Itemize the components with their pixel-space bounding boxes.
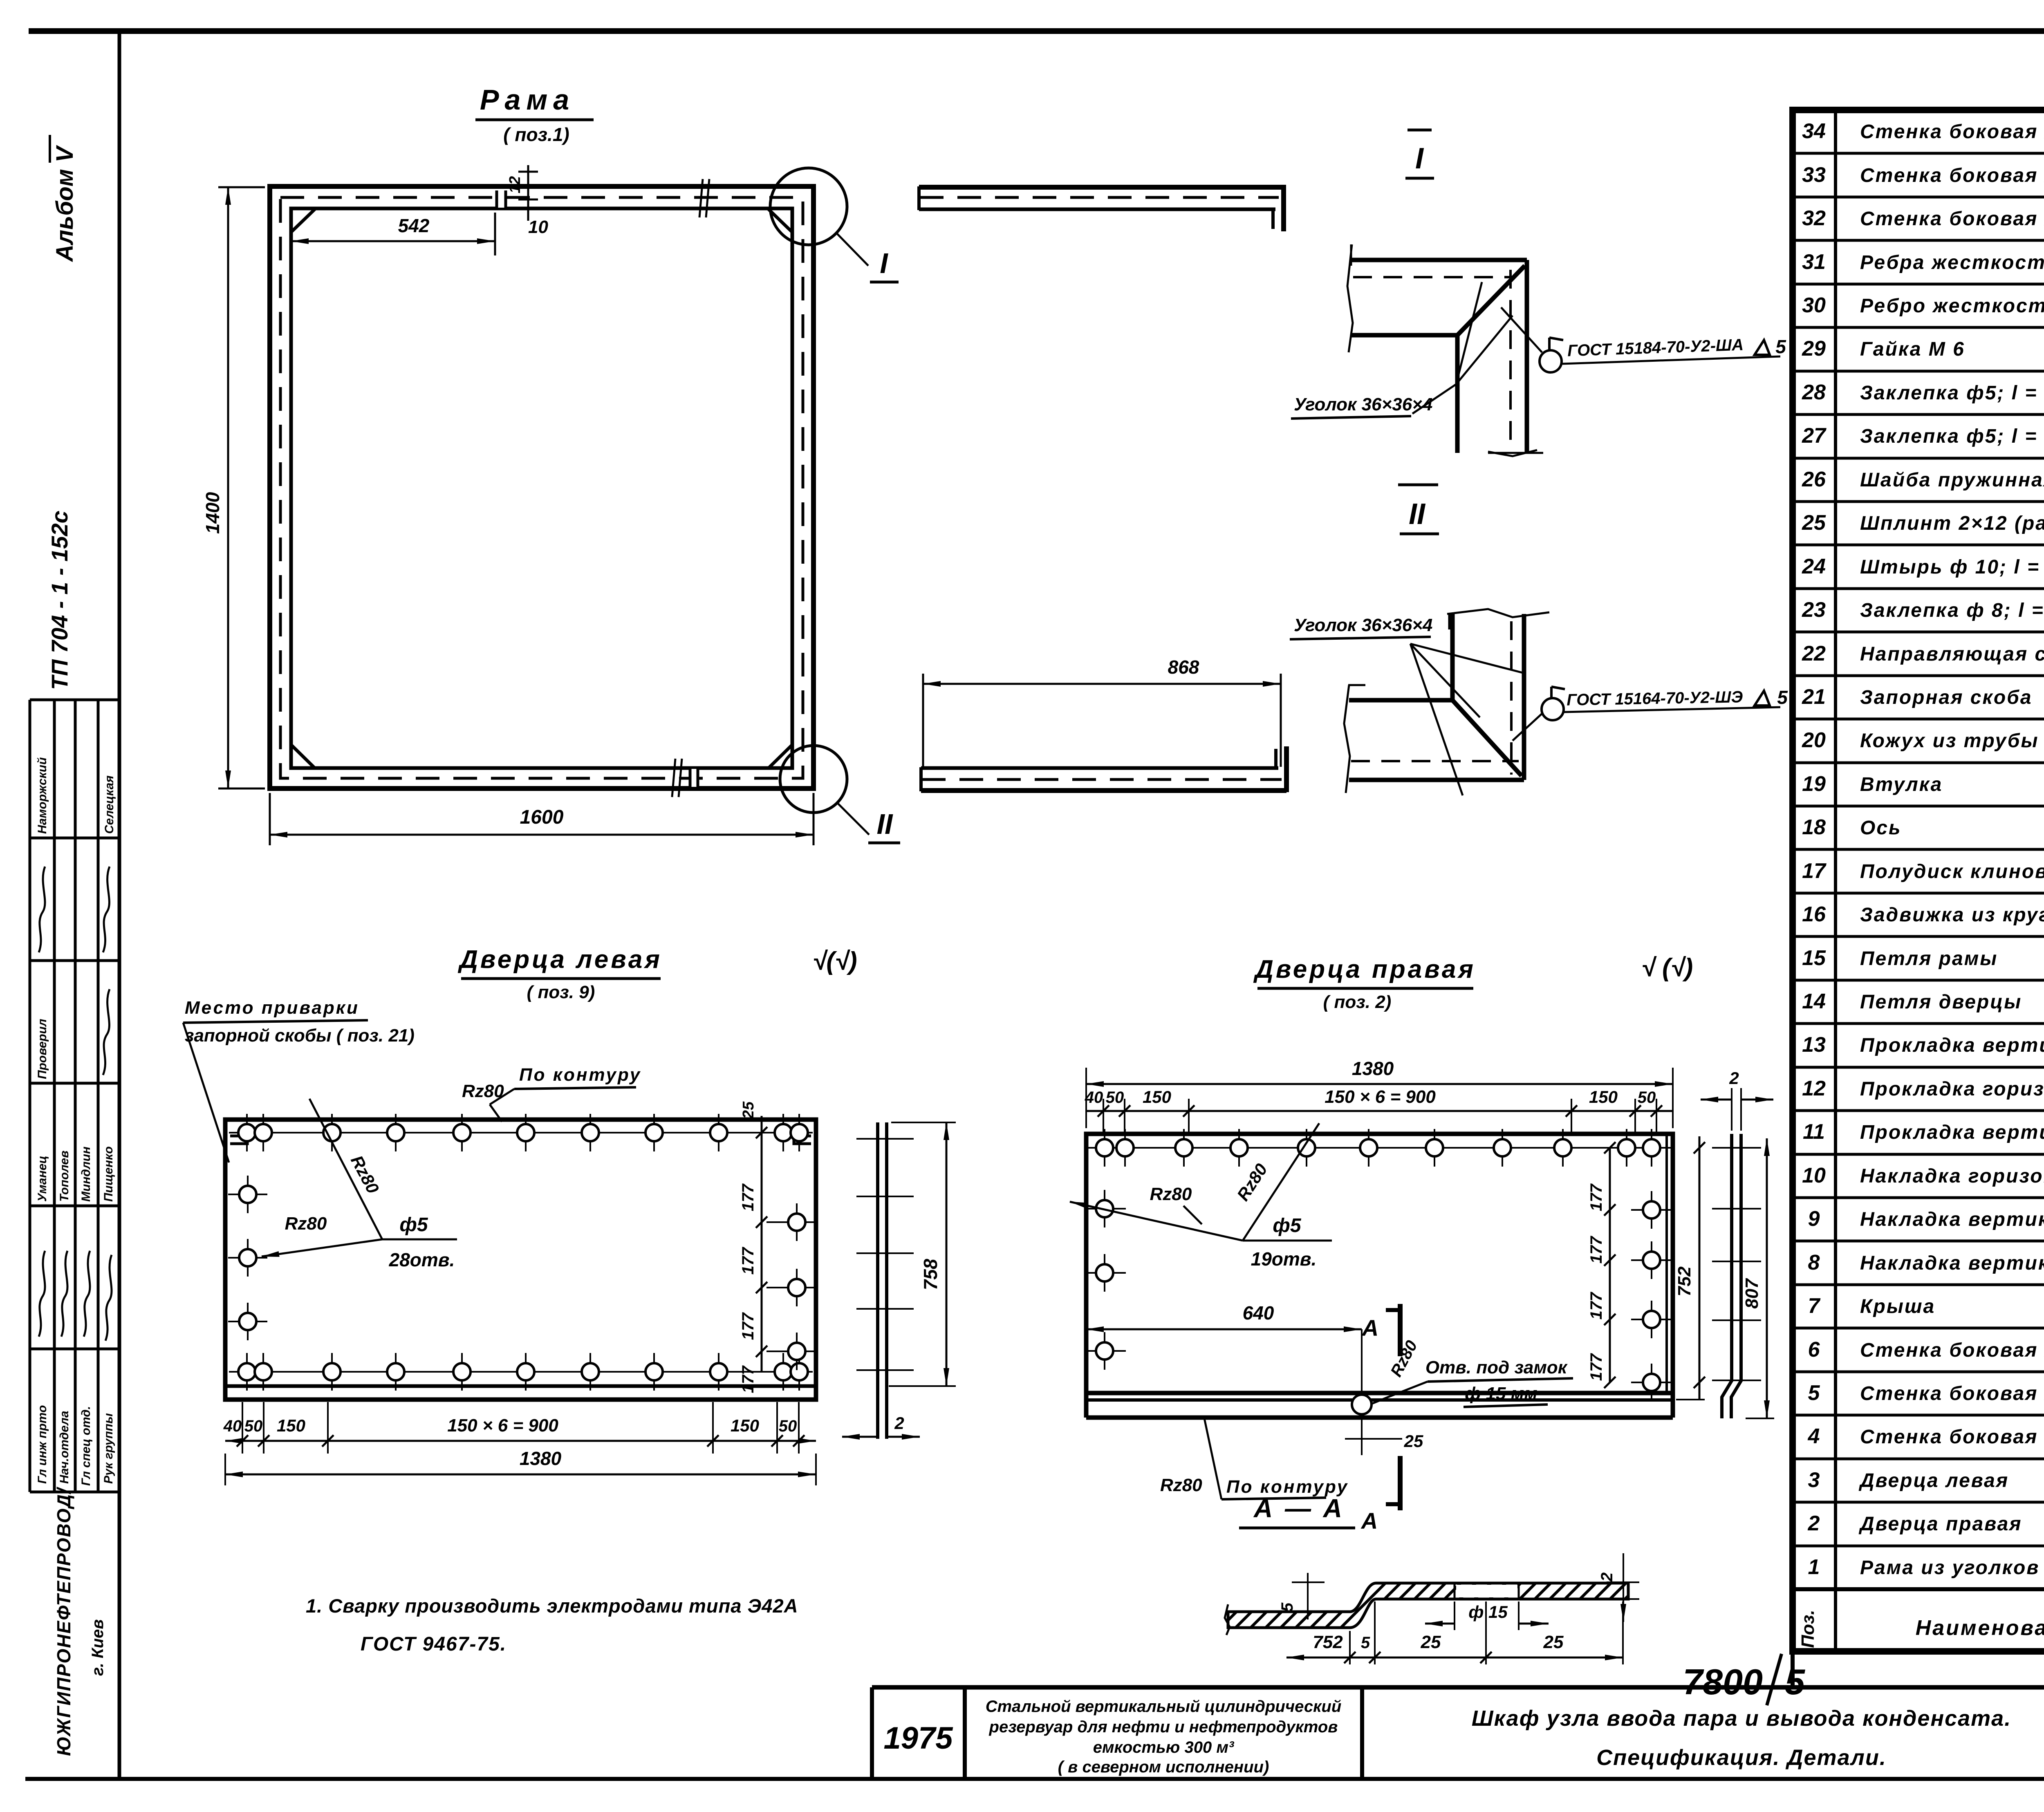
svg-text:177: 177: [739, 1183, 757, 1211]
svg-text:Нач.отдела: Нач.отдела: [58, 1411, 71, 1484]
frame corner chamfers: [291, 209, 315, 232]
left door plate: [225, 1120, 816, 1400]
left door weld notch right: [794, 1136, 811, 1144]
svg-text:5: 5: [1361, 1634, 1370, 1652]
svg-text:1380: 1380: [520, 1448, 562, 1469]
svg-text:Стенка боковая левая: Стенка боковая левая: [1860, 121, 2044, 143]
svg-text:Дверца правая: Дверца правая: [1858, 1513, 2022, 1535]
left door side view: [876, 1122, 879, 1439]
svg-text:Стенка боковая правая: Стенка боковая правая: [1860, 1426, 2044, 1448]
detail I weld leader: [1501, 307, 1542, 352]
left door holes note: [309, 1099, 382, 1239]
svg-text:868: 868: [1168, 656, 1199, 678]
section cut mark A lower: [1398, 1456, 1403, 1510]
svg-text:31: 31: [1802, 250, 1826, 274]
svg-text:Рама из уголков 36×36×4: Рама из уголков 36×36×4: [1860, 1557, 2044, 1579]
svg-text:Шплинт 2×12 (разводной): Шплинт 2×12 (разводной): [1860, 513, 2044, 534]
dimension 12: [527, 165, 529, 221]
svg-text:21: 21: [1802, 685, 1826, 709]
left door thickness dimension 2: [842, 1436, 878, 1438]
svg-text:ГОСТ 9467-75.: ГОСТ 9467-75.: [361, 1633, 507, 1655]
detail II leader lines: [1410, 644, 1526, 674]
svg-text:12: 12: [507, 176, 524, 193]
svg-text:50: 50: [244, 1417, 263, 1435]
right door 752 dimension: [1699, 1136, 1701, 1400]
svg-text:150: 150: [1589, 1087, 1618, 1106]
svg-text:542: 542: [398, 215, 430, 236]
svg-text:5: 5: [1777, 687, 1788, 708]
svg-text:50: 50: [1638, 1089, 1656, 1106]
right door 177 dimension chain: [1609, 1148, 1611, 1382]
svg-text:А: А: [1361, 1315, 1378, 1341]
specification banner: [1791, 1651, 1795, 1687]
svg-text:2: 2: [1808, 1512, 1820, 1535]
svg-text:14: 14: [1802, 990, 1826, 1013]
right door lock hole: [1361, 1386, 1363, 1423]
svg-text:19отв.: 19отв.: [1251, 1248, 1317, 1270]
svg-text:1400: 1400: [202, 492, 223, 534]
detail I angle corner: [1351, 258, 1527, 262]
svg-text:25: 25: [1802, 511, 1826, 535]
partial frame top rail: [919, 185, 1284, 190]
svg-text:Заклепка ф5; l = 20 мм: Заклепка ф5; l = 20 мм: [1860, 382, 2044, 404]
dimension 1400: [218, 186, 265, 188]
svg-text:Накладка вертикальная: Накладка вертикальная: [1860, 1209, 2044, 1230]
svg-text:2: 2: [894, 1413, 904, 1433]
right door right column holes: [1631, 1209, 1673, 1211]
svg-text:22: 22: [1802, 642, 1826, 665]
svg-text:( поз. 9): ( поз. 9): [527, 982, 595, 1002]
svg-text:Кожух из трубы: Кожух из трубы: [1860, 730, 2039, 752]
right door top dimension chain: [1086, 1110, 1673, 1112]
section thickness 2 right: [1623, 1553, 1624, 1622]
svg-text:Альбом V: Альбом V: [52, 145, 78, 262]
svg-text:Прокладка вертикальная: Прокладка вертикальная: [1860, 1035, 2044, 1056]
dimension 1600: [269, 793, 271, 845]
svg-text:Дверца левая: Дверца левая: [1858, 1470, 2009, 1492]
left door 758 dimension: [891, 1122, 956, 1123]
svg-text:1975: 1975: [883, 1721, 953, 1756]
svg-text:150: 150: [731, 1416, 759, 1435]
svg-text:√(√): √(√): [812, 947, 857, 975]
svg-text:2: 2: [1729, 1068, 1739, 1088]
svg-text:50: 50: [1106, 1089, 1124, 1106]
svg-text:2: 2: [1598, 1572, 1616, 1582]
svg-text:18: 18: [1802, 815, 1826, 839]
signature table: [30, 699, 119, 701]
svg-text:1380: 1380: [1352, 1058, 1394, 1079]
svg-text:Наморжский: Наморжский: [36, 757, 49, 834]
svg-text:ТП 704 - 1 - 152с: ТП 704 - 1 - 152с: [47, 511, 72, 690]
svg-text:Петля дверцы: Петля дверцы: [1860, 991, 2022, 1013]
svg-text:25: 25: [740, 1101, 757, 1119]
right door 807 dimension: [1766, 1138, 1768, 1418]
left door bottom dimension chain: [242, 1402, 243, 1454]
svg-text:23: 23: [1802, 598, 1826, 622]
svg-text:8: 8: [1808, 1251, 1820, 1274]
svg-text:16: 16: [1802, 903, 1826, 926]
svg-text:Прокладка горизонтальная: Прокладка горизонтальная: [1860, 1078, 2044, 1100]
svg-text:7800: 7800: [1683, 1662, 1763, 1702]
svg-text:ф 15 мм: ф 15 мм: [1465, 1384, 1537, 1404]
frame bottom rail notch: [690, 769, 698, 787]
svg-text:Стальной вертикальный цилиндри: Стальной вертикальный цилиндрический: [986, 1698, 1342, 1716]
left door weld notch left: [230, 1136, 247, 1144]
svg-text:Ось: Ось: [1860, 817, 1902, 839]
svg-text:807: 807: [1742, 1278, 1762, 1309]
detail II weld leader: [1513, 713, 1543, 741]
svg-text:емкостью 300 м³: емкостью 300 м³: [1093, 1738, 1235, 1756]
svg-text:25: 25: [1421, 1632, 1441, 1652]
svg-text:Шкаф узла ввода пара и вывод: Шкаф узла ввода пара и вывода конденсата…: [1472, 1706, 2011, 1731]
svg-text:24: 24: [1802, 555, 1826, 578]
partial frame bottom rail: [921, 788, 1286, 793]
svg-text:ф5: ф5: [1273, 1215, 1301, 1236]
svg-text:752: 752: [1674, 1266, 1694, 1297]
svg-text:19: 19: [1802, 772, 1826, 796]
detail I weld designation: [1562, 356, 1780, 364]
svg-text:II: II: [877, 808, 893, 840]
svg-text:I: I: [1415, 142, 1424, 175]
svg-text:34: 34: [1802, 119, 1826, 143]
svg-text:26: 26: [1802, 468, 1826, 491]
svg-text:Рук группы: Рук группы: [102, 1413, 115, 1484]
section strip profile: [1228, 1583, 1628, 1628]
svg-text:40: 40: [1085, 1089, 1103, 1106]
right door thickness dimension 2: [1731, 1088, 1732, 1131]
svg-text:Заклепка ф 8; l = 40 мм: Заклепка ф 8; l = 40 мм: [1860, 600, 2044, 621]
svg-text:5: 5: [1785, 1662, 1805, 1702]
svg-text:177: 177: [739, 1312, 757, 1340]
svg-text:Проверил: Проверил: [36, 1019, 49, 1079]
svg-text:Гайка М 6: Гайка М 6: [1860, 338, 1965, 360]
right door 1380 dimension: [1085, 1068, 1087, 1128]
frame bottom rail break marks: [672, 759, 675, 797]
svg-text:7: 7: [1808, 1294, 1821, 1318]
dimension 542: [291, 240, 495, 242]
svg-text:4: 4: [1808, 1425, 1820, 1448]
svg-text:Накладка горизонтальная: Накладка горизонтальная: [1860, 1165, 2044, 1187]
svg-text:( в северном исполнении): ( в северном исполнении): [1058, 1758, 1269, 1776]
svg-text:Rz80: Rz80: [1150, 1184, 1192, 1204]
svg-text:( поз.1): ( поз.1): [503, 124, 569, 145]
svg-text:Уголок 36×36×4: Уголок 36×36×4: [1294, 615, 1432, 635]
svg-text:Накладка вертикальная: Накладка вертикальная: [1860, 1252, 2044, 1274]
detail II callout circle: [780, 746, 847, 813]
svg-text:По контуру: По контуру: [519, 1065, 641, 1085]
svg-text:33: 33: [1802, 163, 1826, 187]
svg-text:177: 177: [1587, 1183, 1605, 1211]
right door 640 dimension: [1086, 1328, 1362, 1330]
svg-text:12: 12: [1802, 1077, 1826, 1100]
svg-text:30: 30: [1802, 293, 1826, 317]
svg-text:177: 177: [1587, 1236, 1605, 1263]
svg-text:640: 640: [1243, 1302, 1274, 1324]
frame flange dashed line: [280, 197, 803, 778]
svg-text:Крыша: Крыша: [1860, 1296, 1935, 1317]
svg-text:Рама: Рама: [480, 84, 575, 116]
dimension 868: [922, 674, 924, 767]
frame outer contour: [270, 186, 814, 788]
svg-text:Rz80: Rz80: [1160, 1475, 1202, 1495]
svg-text:Стенка боковая левая: Стенка боковая левая: [1860, 208, 2044, 230]
svg-text:Ребро жесткости б = 4мм: Ребро жесткости б = 4мм: [1860, 295, 2044, 317]
svg-text:752: 752: [1313, 1632, 1343, 1652]
svg-text:177: 177: [1587, 1292, 1605, 1319]
svg-text:Наименование: Наименование: [1916, 1616, 2044, 1640]
left door 1380 dimension: [224, 1454, 226, 1485]
svg-text:Полудиск клиновый: Полудиск клиновый: [1860, 861, 2044, 882]
left door 177 dimension chain: [761, 1116, 763, 1372]
svg-text:25: 25: [1404, 1431, 1423, 1451]
svg-text:5: 5: [1808, 1381, 1820, 1405]
svg-text:ГОСТ 15164-70-У2-ШЭ: ГОСТ 15164-70-У2-ШЭ: [1567, 688, 1743, 709]
svg-text:177: 177: [739, 1247, 757, 1274]
svg-text:15: 15: [1802, 946, 1826, 970]
svg-text:ф5: ф5: [399, 1214, 428, 1236]
frame top rail break marks: [699, 179, 703, 217]
sheet left border: [118, 31, 121, 1779]
svg-text:Гл спец отд.: Гл спец отд.: [79, 1406, 93, 1486]
sheet bottom border: [25, 1777, 2044, 1781]
left door left column holes: [228, 1194, 267, 1195]
right door holes note: [1243, 1123, 1319, 1241]
svg-text:Rz80: Rz80: [285, 1214, 327, 1234]
svg-text:√ (√): √ (√): [1641, 954, 1693, 982]
svg-text:29: 29: [1802, 337, 1826, 361]
svg-text:28отв.: 28отв.: [389, 1249, 455, 1270]
svg-text:150 × 6 = 900: 150 × 6 = 900: [1325, 1087, 1436, 1107]
frame inner contour: [291, 208, 792, 768]
svg-text:Поз.: Поз.: [1798, 1610, 1818, 1648]
svg-text:Селецкая: Селецкая: [103, 775, 116, 834]
svg-text:I: I: [880, 247, 888, 279]
svg-text:запорной скобы ( поз. 21): запорной скобы ( поз. 21): [185, 1026, 415, 1046]
svg-text:г. Киев: г. Киев: [89, 1619, 107, 1676]
detail II angle corner: [1450, 614, 1455, 700]
right door hole row: [1088, 1147, 1671, 1149]
specification table row lines: [1793, 152, 2044, 155]
svg-text:11: 11: [1803, 1120, 1825, 1144]
svg-text:II: II: [1409, 498, 1426, 531]
svg-text:177: 177: [1587, 1353, 1605, 1381]
detail II weld designation: [1564, 707, 1780, 712]
svg-text:150: 150: [1143, 1087, 1171, 1106]
svg-text:25: 25: [1543, 1632, 1564, 1652]
svg-text:3: 3: [1808, 1468, 1820, 1492]
svg-text:Направляющая скоба: Направляющая скоба: [1860, 643, 2044, 665]
detail I leader lines: [1412, 384, 1456, 414]
svg-text:28: 28: [1802, 381, 1826, 404]
section phi15 dimension: [1454, 1601, 1455, 1630]
right door plate: [1086, 1134, 1673, 1393]
svg-text:Запорная скоба: Запорная скоба: [1860, 687, 2033, 708]
right door side view: [1722, 1134, 1732, 1418]
svg-text:17: 17: [1802, 859, 1827, 883]
svg-text:20: 20: [1802, 728, 1826, 752]
svg-text:150: 150: [277, 1416, 305, 1435]
svg-text:Стенка боковая левая: Стенка боковая левая: [1860, 1339, 2044, 1361]
svg-text:Гл инж прто: Гл инж прто: [36, 1405, 49, 1484]
svg-text:Стенка боковая левая: Стенка боковая левая: [1860, 1383, 2044, 1404]
svg-text:Миндлин: Миндлин: [79, 1147, 93, 1202]
svg-text:Дверца правая: Дверца правая: [1253, 955, 1476, 983]
svg-text:Дверца левая: Дверца левая: [457, 945, 662, 974]
svg-text:Отв. под замок: Отв. под замок: [1425, 1357, 1568, 1377]
svg-text:ЮЖГИПРОНЕФТЕПРОВОД/: ЮЖГИПРОНЕФТЕПРОВОД/: [53, 1487, 74, 1756]
svg-text:27: 27: [1802, 424, 1827, 448]
svg-text:Спецификация. Детали.: Спецификация. Детали.: [1596, 1745, 1887, 1770]
lock hole 25 dimension: [1345, 1438, 1402, 1440]
right door left column holes: [1087, 1208, 1126, 1209]
svg-text:Задвижка из круглой стали: Задвижка из круглой стали: [1860, 904, 2044, 926]
svg-text:Шайба пружинная: Шайба пружинная: [1860, 469, 2044, 491]
svg-text:1: 1: [1808, 1555, 1820, 1579]
left door hole rows: [229, 1132, 813, 1133]
svg-text:50: 50: [779, 1417, 797, 1435]
svg-text:Прокладка вертикальная: Прокладка вертикальная: [1860, 1122, 2044, 1143]
left door right column holes: [766, 1221, 816, 1223]
svg-text:Петля рамы: Петля рамы: [1860, 948, 1998, 970]
svg-text:ф 15: ф 15: [1468, 1602, 1508, 1622]
sheet top border: [29, 28, 2044, 34]
svg-text:758: 758: [920, 1259, 941, 1290]
section bottom dimension chain: [1485, 1601, 1487, 1664]
svg-text:Пищенко: Пищенко: [102, 1146, 115, 1202]
title block frame: [872, 1685, 2044, 1690]
svg-text:резервуар для нефти и нефтепро: резервуар для нефти и нефтепродуктов: [989, 1718, 1338, 1736]
svg-text:13: 13: [1802, 1033, 1826, 1057]
svg-text:Стенка боковая левая: Стенка боковая левая: [1860, 165, 2044, 186]
signatures: [39, 867, 112, 1341]
svg-text:Ребра жесткости б = 4: Ребра жесткости б = 4: [1860, 252, 2044, 273]
svg-text:Уманец: Уманец: [36, 1156, 49, 1202]
frame top rail notch: [497, 189, 506, 208]
svg-text:А: А: [1360, 1508, 1378, 1534]
svg-text:Штырь ф 10; l = 12 мм: Штырь ф 10; l = 12 мм: [1860, 556, 2044, 578]
svg-text:5: 5: [1278, 1602, 1296, 1612]
svg-text:150 × 6 = 900: 150 × 6 = 900: [447, 1416, 558, 1436]
specification table frame: [1793, 110, 2044, 1651]
svg-text:1600: 1600: [520, 806, 564, 828]
svg-text:Место приварки: Место приварки: [185, 998, 359, 1018]
section thickness 5 left: [1307, 1573, 1309, 1619]
svg-text:1. Сварку производить электрод: 1. Сварку производить электродами типа Э…: [306, 1595, 798, 1617]
svg-text:( поз. 2): ( поз. 2): [1323, 992, 1392, 1012]
svg-text:177: 177: [739, 1365, 757, 1393]
svg-text:10: 10: [1802, 1164, 1826, 1187]
section cut mark A upper: [1398, 1304, 1403, 1356]
svg-text:5: 5: [1775, 336, 1786, 357]
svg-text:Тополев: Тополев: [58, 1151, 71, 1202]
svg-text:А — А: А — А: [1253, 1494, 1345, 1523]
svg-text:Заклепка ф5; l = 16 мм: Заклепка ф5; l = 16 мм: [1860, 426, 2044, 447]
svg-text:9: 9: [1808, 1207, 1820, 1231]
svg-text:40: 40: [223, 1417, 242, 1435]
svg-text:10: 10: [528, 217, 548, 237]
svg-text:Втулка: Втулка: [1860, 774, 1943, 795]
svg-text:6: 6: [1808, 1338, 1820, 1362]
svg-text:32: 32: [1802, 206, 1826, 230]
detail I callout circle: [770, 168, 847, 245]
svg-text:Уголок 36×36×4: Уголок 36×36×4: [1294, 394, 1432, 414]
specification table column lines: [1834, 110, 1837, 1651]
